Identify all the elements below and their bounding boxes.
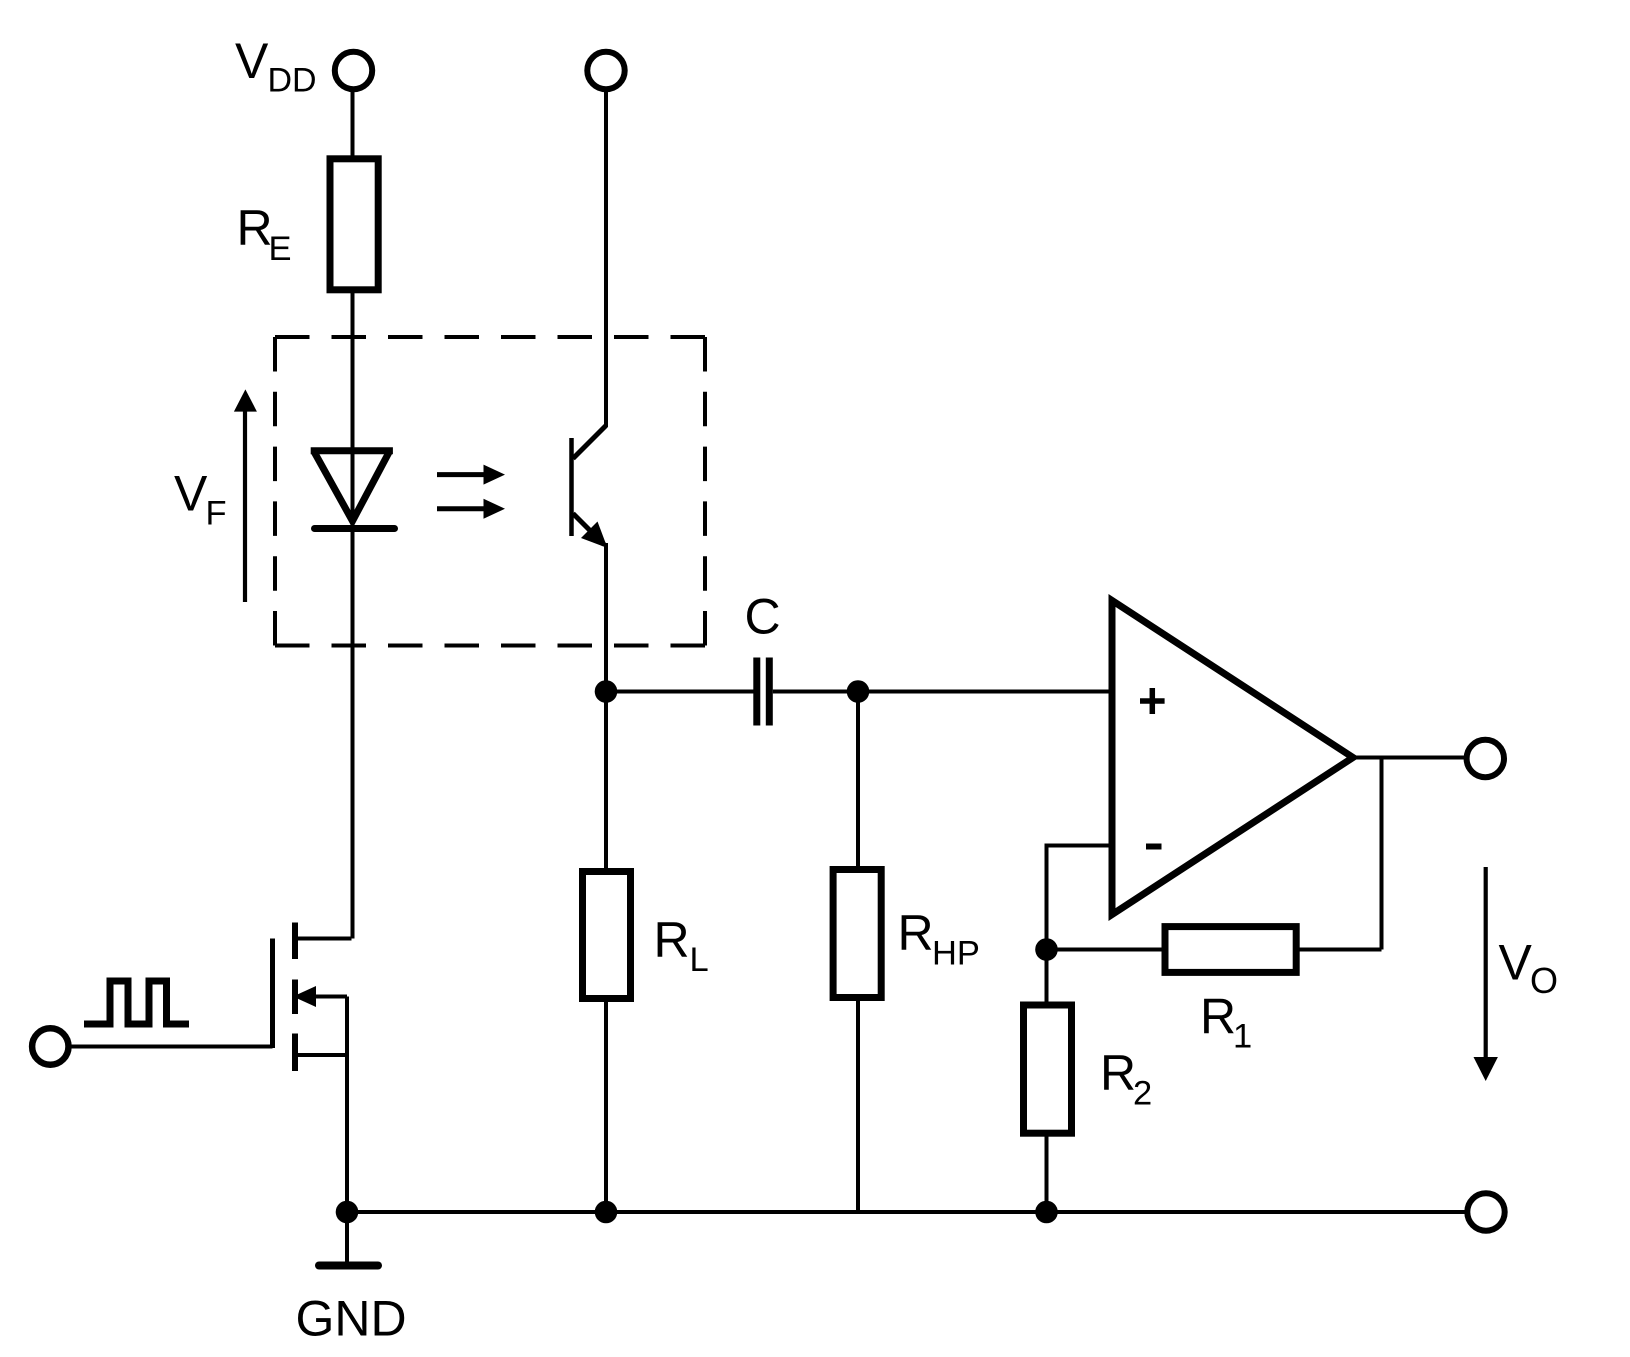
optocoupler dashed box: [275, 337, 705, 646]
label RE: [237, 200, 292, 268]
wire R1 to output branch: [1295, 948, 1382, 952]
rail junction dot at source: [336, 1201, 359, 1224]
label RHP: [898, 905, 980, 973]
svg-text:GND: GND: [296, 1291, 407, 1347]
terminal input: [32, 1028, 68, 1064]
svg-text:L: L: [690, 941, 709, 979]
label VDD: [235, 33, 317, 100]
wire node to RHP: [856, 692, 860, 871]
MOSFET body wire and arrow: [293, 986, 347, 1007]
MOSFET channel dashes: [292, 923, 298, 1072]
terminal VDD: [335, 52, 372, 89]
wire inverting input: [1047, 846, 1114, 950]
svg-text:E: E: [269, 230, 292, 268]
svg-text:2: 2: [1133, 1075, 1152, 1113]
svg-text:O: O: [1530, 960, 1558, 1001]
label R1: [1200, 989, 1252, 1056]
terminal top mid: [587, 52, 624, 89]
rail junction dot at R2: [1035, 1201, 1058, 1224]
label VO: [1499, 935, 1559, 1002]
wire output branch vertical: [1380, 758, 1384, 950]
wire RE through LED to MOSFET drain: [351, 290, 355, 939]
wire RL to ground rail: [604, 998, 608, 1212]
terminal bottom right: [1467, 1193, 1504, 1230]
feedback node dot: [1035, 938, 1058, 961]
ground symbol: [319, 1212, 378, 1266]
wire op-amp output: [1352, 756, 1465, 760]
resistor R2: [1024, 1005, 1072, 1133]
node junction dot mid: [847, 680, 870, 703]
LED D1: [311, 451, 395, 529]
label VF: [174, 466, 227, 533]
wire RHP to ground rail: [856, 997, 860, 1212]
MOSFET Q2 gate: [270, 939, 275, 1049]
rail junction dot at RL: [595, 1201, 618, 1224]
svg-text:V: V: [235, 33, 269, 89]
resistor R1: [1165, 927, 1296, 973]
light arrow 2: [437, 499, 505, 519]
terminal output: [1467, 740, 1504, 777]
op-amp minus marker: [1146, 844, 1162, 850]
svg-text:DD: DD: [268, 62, 317, 100]
svg-text:C: C: [745, 589, 781, 645]
wire R2 to ground rail: [1045, 1132, 1049, 1212]
svg-text:HP: HP: [932, 935, 980, 973]
resistor RE: [330, 159, 378, 290]
capacitor C: [757, 658, 770, 726]
wire node to R2: [1045, 950, 1049, 1009]
svg-text:F: F: [206, 495, 227, 533]
square wave symbol: [84, 981, 189, 1024]
svg-text:R: R: [1200, 989, 1236, 1045]
label R2: [1100, 1045, 1152, 1113]
ground rail: [347, 1210, 1468, 1214]
svg-text:R: R: [237, 200, 273, 256]
phototransistor Q1: [572, 426, 608, 549]
VF arrow: [234, 389, 257, 602]
wire node to RL: [604, 692, 608, 873]
svg-text:1: 1: [1233, 1018, 1252, 1056]
op-amp U1: [1112, 601, 1353, 915]
svg-text:V: V: [174, 466, 208, 522]
wire input to gate: [69, 1045, 273, 1049]
svg-text:R: R: [898, 905, 934, 961]
wire node to R1: [1047, 948, 1167, 952]
MOSFET source bar: [296, 1053, 347, 1057]
resistor RL: [583, 872, 631, 999]
svg-text:R: R: [654, 912, 690, 968]
resistor RHP: [833, 870, 881, 998]
node junction dot left: [595, 680, 618, 703]
VO arrow: [1474, 867, 1498, 1081]
wire capacitor to op-amp + input: [773, 690, 1113, 694]
op-amp plus marker: [1140, 688, 1165, 714]
MOSFET source vertical wire: [345, 997, 349, 1213]
light arrow 1: [437, 465, 505, 485]
svg-text:R: R: [1100, 1045, 1136, 1101]
MOSFET drain bar: [296, 937, 352, 941]
wire emitter to node: [604, 543, 608, 692]
label RL: [654, 912, 709, 979]
svg-text:V: V: [1499, 935, 1533, 991]
wire top terminal to collector: [604, 90, 608, 428]
wire node to capacitor: [606, 690, 754, 694]
wire VDD to RE: [351, 90, 355, 161]
